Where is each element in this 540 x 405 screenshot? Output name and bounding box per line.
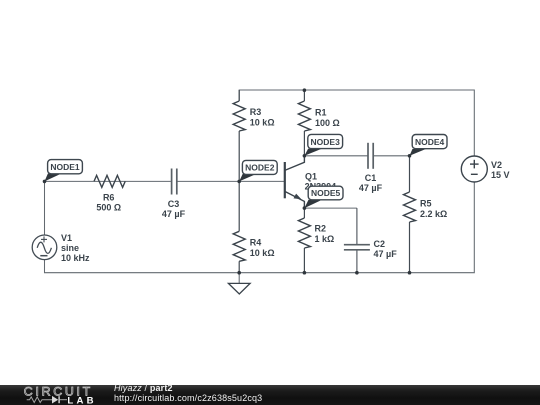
junction ground rail at R2	[303, 271, 307, 275]
node NODE5	[304, 186, 343, 208]
wire: bottom ground rail from V1 to V2	[45, 182, 475, 273]
junction at NODE3	[303, 154, 307, 158]
svg-text:500 Ω: 500 Ω	[96, 202, 121, 212]
resistor R4	[233, 231, 245, 261]
wire: NODE1 to C3 left plate	[45, 180, 171, 182]
junction ground rail at C2	[355, 271, 359, 275]
junction at NODE4	[408, 154, 412, 158]
svg-text:10 kΩ: 10 kΩ	[250, 117, 275, 127]
svg-text:C3: C3	[168, 199, 180, 209]
wire: C2 top lead	[356, 208, 358, 245]
wire: R4 top lead from NODE2	[238, 181, 240, 231]
svg-text:10 kΩ: 10 kΩ	[250, 248, 275, 258]
junction at NODE2	[237, 180, 241, 184]
voltage source V2 (DC 15 V)	[461, 156, 487, 182]
wire: R3 bottom lead to NODE2	[238, 131, 240, 181]
resistor R3	[233, 101, 245, 131]
wire: R4 bottom lead to ground rail	[238, 261, 240, 272]
node NODE3	[304, 134, 342, 155]
junction on supply rail at R1	[303, 88, 307, 92]
svg-text:C2: C2	[374, 239, 386, 249]
svg-text:V1: V1	[61, 233, 72, 243]
svg-text:10 kHz: 10 kHz	[61, 253, 90, 263]
svg-text:2.2 kΩ: 2.2 kΩ	[420, 209, 447, 219]
junction ground rail at R5	[408, 271, 412, 275]
resistor R6	[94, 175, 125, 187]
wire: C2 bottom lead to ground rail	[356, 250, 358, 273]
svg-text:R2: R2	[315, 224, 327, 234]
node NODE1	[45, 160, 83, 182]
wire: R3 top lead	[238, 90, 240, 101]
wire: top supply rail from R3 branch to V2 branch	[239, 90, 474, 156]
wire: R2 bottom lead to ground rail	[303, 248, 305, 273]
svg-text:Q1: Q1	[305, 171, 317, 181]
svg-text:NODE5: NODE5	[311, 188, 341, 198]
wire: R2 top lead from NODE5	[303, 208, 305, 218]
CircuitLab logo	[0, 384, 100, 405]
svg-text:NODE2: NODE2	[245, 163, 275, 173]
svg-text:sine: sine	[61, 243, 79, 253]
transistor Q1 (NPN, 2N3904)	[285, 156, 305, 208]
capacitor C3	[172, 169, 177, 195]
svg-text:NODE3: NODE3	[311, 137, 341, 147]
svg-text:C1: C1	[365, 173, 377, 183]
wire: NODE1 down to V1 top terminal	[44, 181, 46, 234]
ground	[228, 273, 250, 294]
svg-text:R6: R6	[103, 192, 115, 202]
svg-text:15 V: 15 V	[491, 170, 510, 180]
wire: R5 bottom lead to ground rail	[409, 222, 411, 273]
wire: R1 bottom lead to NODE3	[303, 131, 305, 156]
wire: R1 top lead from supply rail	[303, 90, 305, 101]
wire: C1 right plate to NODE4	[373, 155, 410, 157]
svg-text:1 kΩ: 1 kΩ	[315, 234, 335, 244]
svg-text:R1: R1	[315, 108, 327, 118]
capacitor C1	[368, 143, 373, 169]
svg-text:47 µF: 47 µF	[162, 209, 186, 219]
svg-text:47 µF: 47 µF	[359, 183, 383, 193]
svg-text:NODE4: NODE4	[415, 137, 445, 147]
svg-text:R4: R4	[250, 238, 262, 248]
resistor R5	[404, 192, 416, 222]
wire: NODE5 emitter row to C2 branch	[304, 207, 357, 209]
svg-text:V2: V2	[491, 160, 502, 170]
svg-text:LAB: LAB	[67, 395, 96, 405]
wire: R5 top lead from NODE4	[409, 156, 411, 192]
footer credit text	[114, 384, 262, 403]
svg-text:R5: R5	[420, 199, 432, 209]
capacitor C2	[344, 245, 370, 250]
junction at NODE5	[303, 206, 307, 210]
junction at NODE1	[43, 180, 47, 184]
wire: C3 right plate to NODE2 to Q1 base	[177, 180, 284, 182]
node NODE4	[410, 135, 448, 156]
svg-text:100 Ω: 100 Ω	[315, 118, 340, 128]
svg-text:R3: R3	[250, 107, 262, 117]
resistor R2	[298, 218, 310, 248]
voltage source V1 (sine)	[32, 235, 57, 260]
junction ground rail at ground symbol	[237, 271, 241, 275]
svg-text:47 µF: 47 µF	[374, 249, 398, 259]
resistor R1	[298, 101, 310, 131]
node NODE2	[239, 160, 277, 181]
wire: NODE3 to C1 left plate	[304, 155, 368, 157]
svg-text:NODE1: NODE1	[50, 162, 80, 172]
footer bar	[0, 385, 540, 405]
